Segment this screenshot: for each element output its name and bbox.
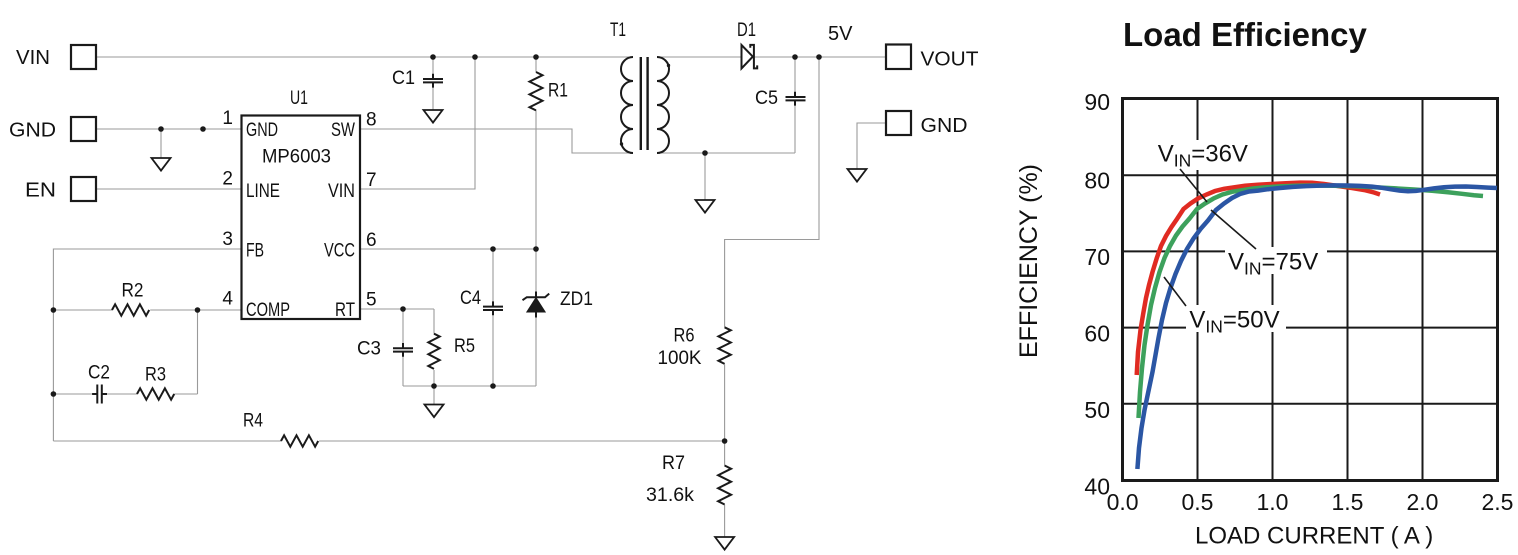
svg-text:50: 50 [1084, 397, 1110, 423]
svg-text:80: 80 [1084, 168, 1110, 194]
svg-text:31.6k: 31.6k [646, 485, 695, 506]
svg-text:R1: R1 [548, 81, 568, 102]
svg-text:RT: RT [335, 300, 355, 321]
svg-text:C5: C5 [755, 88, 778, 109]
svg-text:90: 90 [1084, 89, 1110, 115]
svg-text:T1: T1 [610, 20, 626, 41]
svg-text:D1: D1 [737, 20, 756, 41]
svg-text:VIN=75V: VIN=75V [1228, 249, 1318, 279]
svg-text:2: 2 [222, 169, 233, 190]
svg-text:70: 70 [1084, 244, 1110, 270]
svg-text:VOUT: VOUT [921, 49, 979, 71]
svg-text:MP6003: MP6003 [262, 147, 331, 168]
svg-text:GND: GND [9, 120, 56, 142]
svg-text:100K: 100K [658, 348, 702, 369]
svg-text:VCC: VCC [324, 241, 355, 262]
svg-text:C1: C1 [392, 68, 415, 89]
svg-text:COMP: COMP [246, 300, 290, 321]
svg-text:R2: R2 [122, 281, 144, 302]
svg-text:GND: GND [921, 115, 968, 137]
svg-text:6: 6 [366, 230, 377, 251]
svg-text:1.0: 1.0 [1257, 489, 1289, 515]
svg-text:VIN: VIN [16, 47, 50, 69]
svg-text:1.5: 1.5 [1332, 489, 1364, 515]
svg-text:R6: R6 [674, 326, 695, 347]
svg-text:0.5: 0.5 [1182, 489, 1214, 515]
svg-text:2.5: 2.5 [1482, 489, 1514, 515]
svg-text:0.0: 0.0 [1107, 489, 1139, 515]
svg-text:Load Efficiency: Load Efficiency [1123, 16, 1368, 53]
svg-text:ZD1: ZD1 [560, 289, 593, 310]
svg-text:EN: EN [25, 180, 56, 202]
svg-text:R7: R7 [662, 453, 685, 474]
svg-text:3: 3 [222, 229, 233, 250]
svg-text:VIN=50V: VIN=50V [1189, 307, 1279, 337]
svg-text:R3: R3 [145, 365, 166, 386]
svg-text:C3: C3 [357, 339, 381, 360]
svg-text:EFFICIENCY (%): EFFICIENCY (%) [1015, 164, 1043, 358]
svg-text:60: 60 [1084, 321, 1110, 347]
svg-text:2.0: 2.0 [1407, 489, 1439, 515]
svg-text:U1: U1 [290, 88, 308, 109]
svg-text:5: 5 [366, 290, 377, 311]
svg-text:R5: R5 [454, 336, 475, 357]
svg-text:LINE: LINE [246, 181, 280, 202]
svg-text:SW: SW [331, 120, 355, 141]
svg-text:R4: R4 [243, 411, 263, 432]
svg-text:LOAD CURRENT ( A ): LOAD CURRENT ( A ) [1195, 523, 1433, 550]
svg-text:8: 8 [366, 110, 377, 131]
svg-text:7: 7 [366, 170, 377, 191]
svg-text:VIN=36V: VIN=36V [1158, 141, 1248, 171]
svg-text:4: 4 [222, 289, 233, 310]
svg-text:VIN: VIN [328, 181, 355, 202]
svg-text:C4: C4 [460, 288, 481, 309]
svg-text:FB: FB [246, 241, 264, 262]
svg-text:5V: 5V [828, 23, 853, 45]
svg-text:C2: C2 [88, 363, 110, 384]
svg-text:1: 1 [222, 108, 233, 129]
svg-text:GND: GND [246, 120, 278, 141]
